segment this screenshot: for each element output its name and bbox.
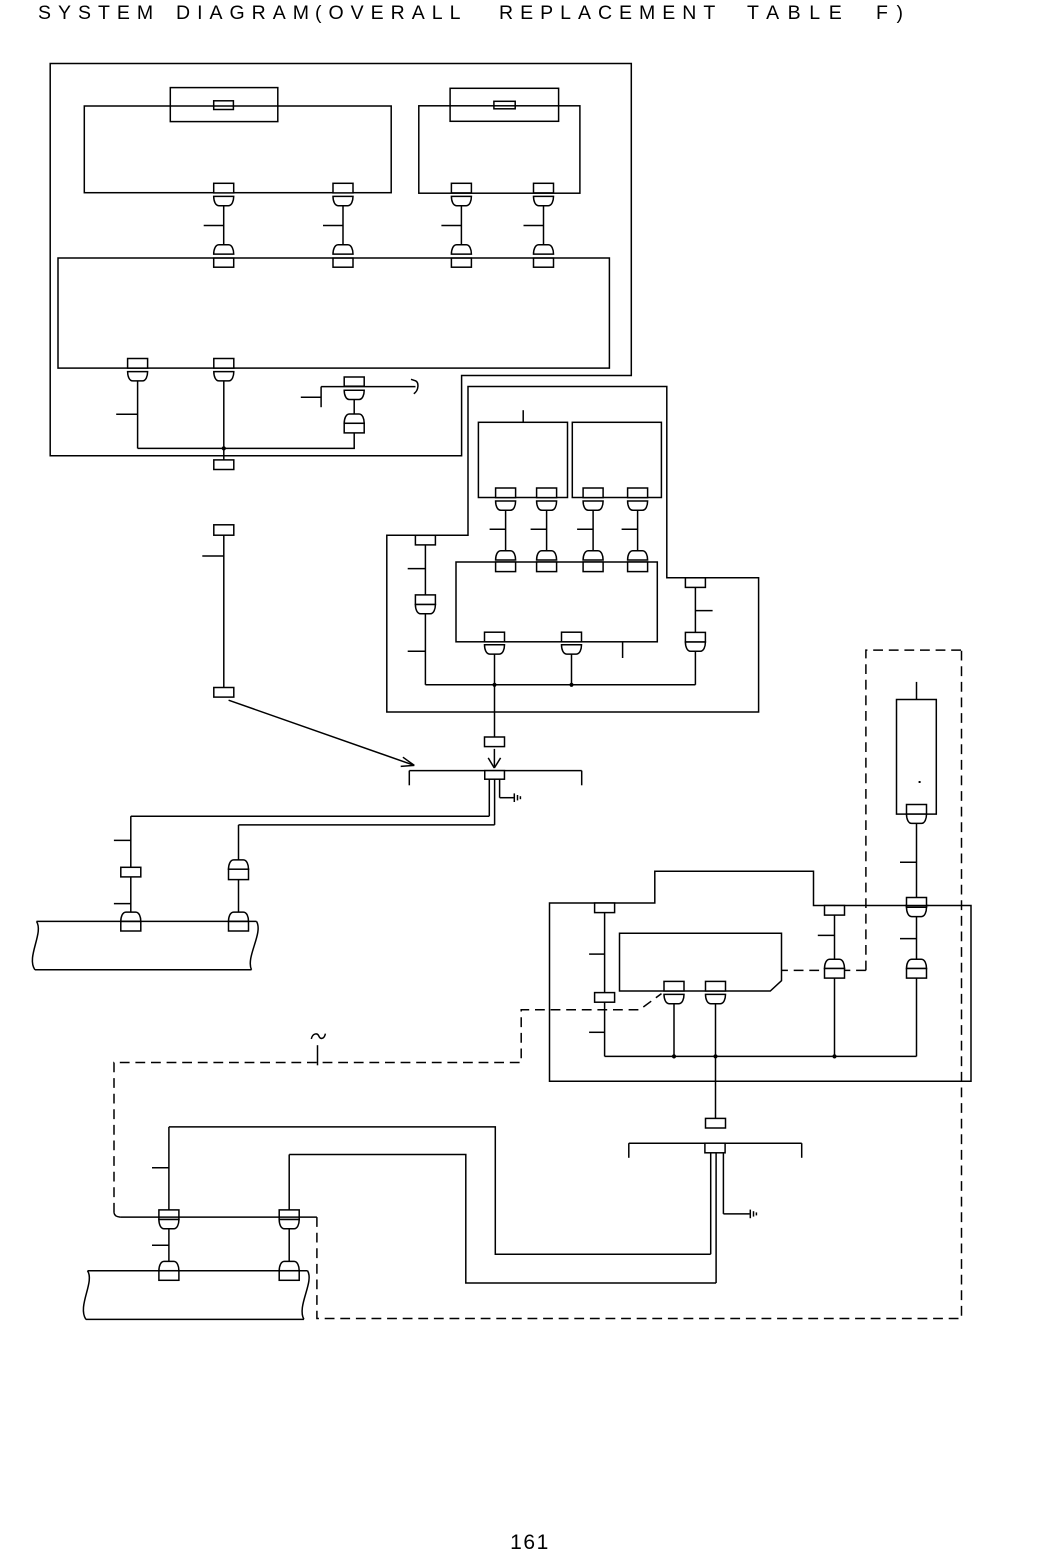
connector column CN-B2a (plug half): [583, 488, 603, 510]
svg-text:SYSTEM: SYSTEM: [38, 2, 160, 24]
svg-text:(OVERALL: (OVERALL: [315, 2, 467, 24]
routed wire CN-N pin2 to bottom-left col2: [289, 1155, 716, 1284]
connector rect on board C top (col A): [825, 906, 845, 916]
wire with tick (col B): [900, 917, 917, 960]
fuse F2: [494, 101, 515, 109]
junction on B bus 2: [569, 683, 573, 687]
connector dome below edge (col B): [907, 907, 927, 916]
long diagonal arrow to bracket CN-M: [229, 700, 415, 766]
connector rect straddling board C edge (col B): [907, 898, 927, 908]
connector column CN-B2b (jack half on B3): [628, 551, 648, 572]
wire with tick (bottom-left col 1): [152, 1229, 169, 1262]
connector column CN-B2b (plug half): [628, 488, 648, 510]
connector column CN-B1a (jack half on B3): [496, 551, 516, 572]
wire from C1 connector x=715.5 to C bus: [715, 1004, 717, 1057]
wire from B3 connector x=494.5 to bus: [494, 654, 496, 685]
wire bottom-left column 1 with tick: [152, 1127, 169, 1210]
connector column CN-A2a (plug half): [451, 183, 471, 205]
connector column CN-B1a (plug half): [496, 488, 516, 510]
wire to C bus (col B): [916, 978, 918, 1056]
bracket connector CN-M: [409, 771, 581, 786]
wire from C bus down to CN-N: [715, 1056, 717, 1118]
in-line connector pair (right column B): [685, 632, 705, 651]
wire with right tick (right column B): [695, 587, 712, 632]
connector pair (bottom-left col 2): [279, 1210, 299, 1229]
unit box C1 (clipped corner): [620, 933, 782, 991]
sub board box B3: [456, 562, 657, 642]
connector column CN-A1b (jack half on bus board): [333, 245, 353, 267]
svg-text:REPLACEMENT: REPLACEMENT: [499, 2, 722, 24]
polarity dot in battery: [919, 781, 921, 783]
connector on C1 bottom at x=715.5: [706, 981, 726, 1003]
wire CN-B2b: [622, 510, 638, 550]
junction on wire W1: [222, 446, 226, 450]
junction C bus 3: [832, 1054, 836, 1058]
connector column CN-A2a (jack half on bus board): [451, 245, 471, 267]
unit box A1: [84, 106, 391, 193]
CN-N pin 2 wire: [715, 1153, 717, 1283]
wire with tick (left column B): [408, 545, 426, 595]
unit box B1: [478, 422, 567, 497]
jump wire with hooked arrow: [321, 379, 418, 393]
board C outline with raised hat: [550, 871, 972, 1081]
bus wire inside board C: [605, 1055, 917, 1057]
connector rect on board B step edge: [685, 578, 705, 588]
long wire down with tick: [202, 535, 224, 687]
wire (bottom-left col 2): [288, 1229, 290, 1262]
routed wire CN-N pin1 to bottom-left col1: [169, 1127, 711, 1254]
wire CN-A2a: [441, 206, 461, 245]
CN-N housing rect: [705, 1143, 725, 1153]
connector column CN-B2a (jack half on B3): [583, 551, 603, 572]
in-line connector pair (col A): [825, 959, 845, 978]
connector column CN-A2b (jack half on bus board): [534, 245, 554, 267]
wire between jump connector halves: [353, 400, 355, 415]
in-line connector rect (left col 1): [121, 867, 141, 877]
connector column CN-A1a (plug half): [214, 183, 234, 205]
wire with tick (C left col): [589, 913, 605, 993]
wire to C bus (col A): [834, 978, 836, 1056]
in-line connector pair (left col 2): [229, 860, 249, 880]
harness band 1 (torn cable to other assembly): [32, 921, 258, 969]
wire W1: [138, 433, 355, 449]
in-line connector pair on W1 riser: [344, 414, 364, 433]
wire from CN-A3a: [116, 381, 137, 449]
bracket connector CN-N: [629, 1143, 802, 1158]
connector rect above bracket CN-M: [485, 737, 505, 747]
dashed holder box outline: [866, 650, 962, 970]
battery bottom connector rect: [907, 805, 927, 815]
hook joining dashed flex to solid bus: [114, 1213, 120, 1217]
wire from B bus down to CN-M: [494, 685, 496, 737]
connector pair on harness band 2 (col 1): [159, 1261, 179, 1280]
connector rect below board A: [214, 460, 234, 470]
wire with tick (left col 1): [114, 877, 131, 912]
wire CN-M pin2 to left block: [239, 824, 495, 826]
fuse holder box A2: [450, 88, 558, 121]
board C top edge segment through col B rect: [905, 905, 929, 907]
wire to bus (right column B): [694, 651, 696, 685]
bus wire inside board B: [425, 684, 695, 686]
connector column CN-A1a (jack half on bus board): [214, 245, 234, 267]
svg-text:161: 161: [510, 1531, 550, 1554]
unit box A2: [419, 106, 580, 193]
battery connector dome: [907, 814, 927, 823]
CN-M housing rect: [485, 771, 505, 780]
in-line connector pair (col B): [907, 959, 927, 978]
wire CN-A2b: [524, 206, 544, 245]
wire CN-M pin1 to left block: [131, 815, 490, 817]
connector on B3 bottom at x=494.5: [484, 632, 504, 654]
wire CN-B1b: [531, 510, 547, 550]
stub on battery top: [916, 682, 918, 700]
connector pair on harness band 1 (col 2): [229, 912, 249, 931]
svg-text:TABLE: TABLE: [747, 2, 850, 24]
wire bottom-left column 2: [288, 1155, 290, 1210]
wire from B3 connector x=571.5 to bus: [571, 654, 573, 685]
connector rect on board C top (left col): [595, 903, 615, 913]
floating connector rect above CN-N: [706, 1118, 726, 1128]
CN-N pin 1 wire: [710, 1153, 712, 1254]
down arrow into bracket CN-M: [488, 749, 500, 768]
svg-text:F): F): [876, 2, 912, 24]
fuse F1: [214, 101, 234, 110]
connector pair (dome half) below jump wire: [344, 390, 364, 399]
board A outer outline: [50, 64, 631, 456]
wire from C1 connector x=674.0 to C bus: [673, 1004, 675, 1057]
wire CN-B1a: [490, 510, 506, 550]
unit box B2: [572, 422, 661, 497]
in-line connector pair (left column B): [415, 595, 435, 614]
wire with tick (col A): [818, 915, 835, 959]
wire from battery with tick: [900, 823, 917, 897]
wire CN-A1a: [204, 206, 224, 245]
wire CN-B2a: [577, 510, 593, 550]
CN-M pin 3 wire to ground: [500, 779, 514, 798]
junction C bus 2: [713, 1054, 717, 1058]
connector rect at arrow origin: [214, 688, 234, 698]
connector column CN-A2b (plug half): [534, 183, 554, 205]
connector column CN-A1b (plug half): [333, 183, 353, 205]
CN-M pin 2 wire: [494, 779, 496, 825]
solid bus through bottom-left connectors: [120, 1216, 317, 1218]
in-line connector rect (C left col): [595, 993, 615, 1003]
dashed flex wire (right loop): [317, 650, 962, 1318]
svg-text:DIAGRAM: DIAGRAM: [176, 2, 316, 24]
stub on unit box B1: [522, 410, 524, 422]
board B outer outline: [387, 387, 759, 713]
title text: [38, 2, 912, 24]
bus board box A3: [58, 258, 609, 368]
wire CN-A1b: [323, 206, 343, 245]
AC marker stub: [317, 1045, 319, 1065]
battery cell body: [897, 700, 937, 815]
ground symbol G2: [750, 1210, 756, 1219]
wire with tick to C bus (C left col): [589, 1002, 605, 1056]
wire left column 1 with ticks: [114, 816, 131, 867]
connector CN-A3a (on bus board bottom): [128, 359, 148, 381]
connector pair on harness band 1 (col 1): [121, 912, 141, 931]
harness band 2 (torn cable to other assembly): [83, 1271, 309, 1320]
wire from CN-A3b down through board edge: [223, 381, 225, 460]
connector rect on board B top-left edge: [415, 535, 435, 545]
in-line connector rect: [214, 525, 234, 535]
stub wire with tick: [301, 387, 321, 408]
connector pair (bottom-left col 1): [159, 1210, 179, 1229]
CN-N pin 3 wire to ground: [723, 1153, 749, 1214]
ground symbol G1: [514, 793, 520, 802]
connector on C1 bottom at x=674.0: [664, 981, 684, 1003]
fuse holder box A1: [170, 88, 277, 122]
tilde glyph: [311, 1034, 325, 1039]
junction C bus 1: [672, 1054, 676, 1058]
connector on B3 bottom at x=571.5: [562, 632, 582, 654]
connector pair on harness band 2 (col 2): [279, 1261, 299, 1280]
wire to bus with tick (left column B): [408, 614, 426, 685]
connector pair (rect half) above jump wire: [344, 377, 364, 386]
connector column CN-B1b (jack half on B3): [537, 551, 557, 572]
dashed flex wire (left loop with AC marker): [114, 994, 662, 1213]
dashed link to board C inner box: [782, 969, 866, 971]
connector column CN-B1b (plug half): [537, 488, 557, 510]
junction on B bus 1: [492, 683, 496, 687]
stub below B3: [622, 642, 624, 658]
wire (left col 2): [238, 880, 240, 913]
wire left column 2: [238, 825, 240, 860]
CN-M pin 1 wire: [488, 779, 490, 816]
connector CN-A3b (on bus board bottom): [214, 359, 234, 381]
